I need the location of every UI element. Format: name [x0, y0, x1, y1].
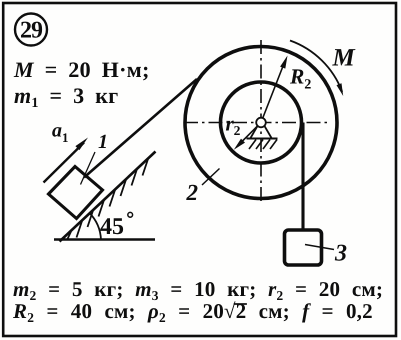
vertical centerline: [260, 40, 262, 204]
data text line 1: [13, 282, 381, 300]
moment arc M: [290, 41, 343, 97]
label r2: [226, 121, 240, 135]
horizontal centerline: [184, 122, 329, 124]
given text m1 = 3 kg: [14, 88, 117, 107]
radical vinculum over 2: [234, 303, 247, 305]
pivot support at pulley axle: [247, 118, 278, 149]
label 1: [99, 135, 107, 148]
pulley inner circle: [221, 82, 302, 163]
angle arc 45: [89, 213, 101, 241]
leader line to label 2: [202, 169, 220, 186]
rope from block 1 to pulley: [84, 79, 197, 178]
label 45 deg: [100, 218, 123, 234]
label 2: [186, 185, 197, 200]
label a1: [52, 127, 68, 142]
leader line to label 3: [305, 245, 334, 250]
incline surface: [60, 152, 156, 242]
problem number 29: [21, 22, 42, 38]
degree symbol of 45: [128, 212, 133, 217]
block 1 on incline: [49, 167, 103, 219]
given text M = 20 N*m: [14, 62, 148, 80]
radius arrow r2: [234, 125, 259, 150]
acceleration arrow a1: [44, 138, 89, 183]
pulley outer circle: [185, 47, 337, 199]
vertical rope to block 3: [301, 123, 304, 232]
problem number badge circle: [15, 14, 47, 46]
block 3: [285, 230, 322, 265]
leader line to label 1: [81, 152, 96, 185]
incline hatching: [68, 159, 149, 239]
radius arrow R2: [261, 56, 288, 123]
data text line 2: [13, 301, 372, 322]
label 3: [335, 245, 347, 261]
ground line: [54, 238, 155, 240]
label M: [332, 49, 355, 65]
label R2: [290, 69, 311, 88]
